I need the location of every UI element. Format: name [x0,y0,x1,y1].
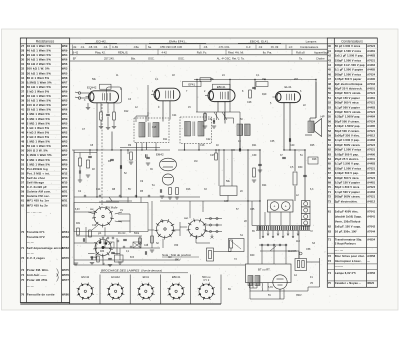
svg-text:W06: W06 [62,108,68,112]
svg-text:Condensateurs: Condensateurs [300,45,319,49]
note text: position [162,253,191,262]
svg-text:60: 60 [21,194,24,198]
svg-text:39: 39 [21,99,24,103]
coil stubs under tube1/tube2 [136,112,234,124]
svg-text:50pF 1.500 V mica: 50pF 1.500 V mica [335,185,360,189]
svg-text:W05: W05 [62,121,68,125]
svg-text:51: 51 [328,96,332,100]
svg-text:20 kΩ 1 Watt 5%: 20 kΩ 1 Watt 5% [27,53,51,57]
svg-text:C55 C90 C45 C36: C55 C90 C45 C36 [160,45,182,49]
svg-text:W04: W04 [62,158,68,162]
svg-text:57: 57 [21,181,24,185]
svg-text:W075: W075 [62,268,70,272]
svg-text:66: 66 [328,166,332,170]
svg-text:— —: — — [27,285,34,289]
svg-text:A7024: A7024 [367,73,375,76]
svg-text:..ECH42..: ..ECH42.. [94,40,107,44]
svg-text:Self déparasitage enroul.: Self déparasitage enroul. [27,246,64,250]
svg-text:W21: W21 [62,190,68,194]
svg-text:Pot.Vol: Pot.Vol [118,232,126,235]
svg-text:68: 68 [328,176,332,180]
svg-text:1M: 1M [262,78,265,81]
svg-text:AL. 4² OSC. Ret.°2. Ta.: AL. 4² OSC. Ret.°2. Ta. [216,57,245,61]
svg-text:60: 60 [328,138,332,142]
trimmers right of MF2 [214,112,227,120]
resistor R on 295 rail [293,172,297,185]
svg-text:BK I: BK I [175,258,181,262]
svg-text:C28: C28 [247,101,252,104]
junction circles cluster [102,237,141,248]
svg-text:6a.: 6a. [148,45,152,49]
svg-text:A4541: A4541 [367,216,375,219]
svg-text:.C71 C61.: .C71 C61. [218,45,230,49]
svg-text:257.245.: 257.245. [104,57,115,61]
svg-text:4 kΩ 2 Watt 5%: 4 kΩ 2 Watt 5% [27,130,50,134]
svg-text:58: 58 [328,129,332,133]
svg-text:110: 110 [296,240,300,243]
svg-text:A4490: A4490 [367,78,375,81]
svg-text:C12: C12 [92,225,97,227]
svg-text:W07: W07 [62,103,68,107]
svg-text:Lampe 6,3V 4°5: Lampe 6,3V 4°5 [335,271,356,275]
svg-text:R33: R33 [100,251,105,253]
svg-text:0,02μF 500 V pap.: 0,02μF 500 V pap. [335,171,359,175]
svg-text:6,3V: 6,3V [75,209,80,211]
svg-text:150pF 500 V céram.: 150pF 500 V céram. [335,110,361,114]
svg-text:74: 74 [328,271,332,275]
svg-text:W12: W12 [62,171,68,175]
svg-text:A7024: A7024 [367,144,375,147]
svg-text:W14: W14 [62,176,68,180]
svg-text:R19: R19 [262,93,267,96]
svg-text:71: 71 [328,238,332,242]
IF transformer MF2 (dashed) [180,117,212,144]
svg-text:C27: C27 [210,154,215,157]
svg-text:1M: 1M [194,160,197,163]
dark blobs near socket V2 [99,241,108,248]
output transformer + speaker HP [308,121,314,133]
svg-text:EM42: EM42 [156,153,164,157]
svg-text:Résistances: Résistances [36,39,55,43]
svg-text:51: 51 [21,153,24,157]
rail series resistor [200,78,211,81]
svg-text:EL41: EL41 [284,85,291,89]
svg-text:C31: C31 [208,118,213,121]
svg-text:50: 50 [328,91,332,95]
svg-text:74: 74 [21,273,24,277]
svg-text:A7041: A7041 [367,211,375,214]
svg-text:W09: W09 [62,44,68,48]
svg-text:0,1μF 1.500 V pap.: 0,1μF 1.500 V pap. [335,138,360,142]
svg-text:100pF 1.500 V mica: 100pF 1.500 V mica [335,49,361,53]
svg-text:61: 61 [328,210,332,214]
svg-text:62: 62 [21,203,24,207]
svg-text:41: 41 [328,49,332,53]
svg-text:Cavalier + Noyau ...: Cavalier + Noyau ... [335,281,361,285]
svg-text:W03: W03 [62,67,68,71]
svg-text:Anti-fad. ——: Anti-fad. —— [27,273,47,277]
svg-text:W01: W01 [62,112,68,116]
svg-text:W32: W32 [62,203,68,207]
svg-text:Lampes: Lampes [306,40,317,44]
svg-text:.C8. C6.: .C8. C6. [88,45,98,49]
svg-text:100pF 3 kV .500 V pap: 100pF 3 kV .500 V pap [335,63,365,67]
coupling parts mid [252,86,256,88]
svg-text:55: 55 [328,115,332,119]
svg-text:1 kΩ 1 Watt 5%: 1 kΩ 1 Watt 5% [27,126,50,130]
svg-text:0,5MΩ 1 Watt 5%: 0,5MΩ 1 Watt 5% [27,80,52,84]
svg-text:49: 49 [328,87,332,91]
svg-text:72: 72 [328,195,332,199]
heater wiring under mains transformer [250,283,269,291]
svg-text:m±: m± [288,46,293,49]
svg-text:W15: W15 [62,181,68,185]
svg-text:A7021: A7021 [367,196,375,199]
svg-text:2 MΩ 1 Watt 5%: 2 MΩ 1 Watt 5% [27,158,50,162]
svg-text:57: 57 [328,124,332,128]
svg-text:6V3: 6V3 [130,257,135,259]
svg-text:46: 46 [328,72,332,76]
svg-text:73: 73 [328,199,332,203]
dashed gang line [101,104,103,207]
svg-text:63: 63 [328,230,332,234]
svg-text:150pF 1.500 V mica: 150pF 1.500 V mica [335,166,361,170]
svg-text:56: 56 [21,176,24,180]
left side component chain [79,158,82,166]
svg-text:61: 61 [21,199,24,203]
svg-text:C40: C40 [290,144,295,147]
svg-text:50μF 25 V électroch.: 50μF 25 V électroch. [335,87,363,91]
svg-text:72: 72 [328,254,332,258]
svg-text:267: 267 [294,78,299,81]
title / header band [20,38,377,304]
svg-text:R30: R30 [298,166,303,169]
svg-text:30 kΩ 1 Watt 5%: 30 kΩ 1 Watt 5% [27,71,51,75]
svg-text:Galette AM com.: Galette AM com. [27,190,51,194]
comb feeder wires [252,201,306,227]
svg-text:A4490: A4490 [367,153,375,156]
svg-text:— —: — — [27,252,34,256]
svg-text:47: 47 [21,135,24,139]
svg-text:masse: masse [90,257,97,259]
svg-text:W063: W063 [62,246,70,250]
svg-text:50 kΩ 1 Watt 5%: 50 kΩ 1 Watt 5% [27,144,51,148]
svg-text:55: 55 [21,171,24,175]
svg-text:EF41: EF41 [143,275,150,279]
svg-text:62: 62 [328,148,332,152]
svg-text:10 kΩ 1 Watt 5%: 10 kΩ 1 Watt 5% [27,99,51,103]
svg-text:osc.: osc. [90,209,95,211]
svg-text:MF2 455 kc 2e: MF2 455 kc 2e [27,203,48,207]
svg-text:42: 42 [21,112,24,116]
svg-text:fla. Pra.: fla. Pra. [262,51,272,55]
svg-text:A4558: A4558 [367,255,375,258]
svg-text:45: 45 [328,68,332,72]
svg-text:A7024: A7024 [367,111,375,114]
svg-text:+: + [273,204,275,208]
svg-text:W09: W09 [62,49,68,53]
svg-text:A7021: A7021 [367,149,375,152]
svg-text:100pF 500V céram.: 100pF 500V céram. [335,143,361,147]
svg-text:— —: — — [27,241,34,245]
svg-text:0,1μF 500 V papier: 0,1μF 500 V papier [335,190,360,194]
svg-text:2x8 μF. 150 V supp.: 2x8 μF. 150 V supp. [335,225,361,229]
svg-text:A4485: A4485 [367,172,375,175]
svg-text:54: 54 [328,110,332,114]
svg-text:A4554: A4554 [367,239,375,242]
svg-text:200 kΩ 1 W. 5%: 200 kΩ 1 W. 5% [27,67,50,71]
svg-text:A4481: A4481 [367,50,375,53]
svg-text:40: 40 [328,44,332,48]
svg-text:CY 2: CY 2 [203,278,209,282]
svg-text:EBC41: EBC41 [217,85,226,89]
svg-text:OSC.: OSC. [178,57,185,61]
svg-text:R25: R25 [310,144,315,147]
svg-text:R16: R16 [186,188,191,191]
svg-text:2μF électrochim.: 2μF électrochim. [335,199,358,203]
svg-text:69: 69 [328,181,332,185]
svg-text:C14: C14 [96,188,101,191]
svg-text:OSC.: OSC. [148,57,155,61]
svg-text:C35: C35 [270,140,275,143]
svg-text:0,5μF 150 V papier: 0,5μF 150 V papier [335,96,360,100]
svg-text:50: 50 [21,149,24,153]
svg-text:0,1μF 1.500 V pap.: 0,1μF 1.500 V pap. [335,162,360,166]
tube V1 ECH42 [86,91,119,103]
svg-text:W06: W06 [62,58,68,62]
svg-text:52: 52 [328,101,332,105]
svg-text:5V: 5V [268,294,271,297]
voltage selector contacts [259,231,299,251]
chassis wiring cluster left [74,212,180,260]
svg-text:Tonalité N°2: Tonalité N°2 [27,235,45,239]
svg-text:0,1μF 500 V papier: 0,1μF 500 V papier [335,105,360,109]
svg-text:43: 43 [21,117,24,121]
svg-text:W04: W04 [62,126,68,130]
small box component near 224,190 [220,186,237,196]
svg-text:73: 73 [328,259,332,263]
svg-text:A4501: A4501 [367,158,375,161]
svg-text:40 kΩ 1 Watt 5%: 40 kΩ 1 Watt 5% [27,44,51,48]
svg-text:45: 45 [21,126,24,130]
svg-text:Bla.: Bla. [131,57,136,61]
svg-text:C39: C39 [252,154,257,157]
svg-text:59: 59 [21,190,24,194]
svg-text:50 kΩ 2 Watt 5%: 50 kΩ 2 Watt 5% [27,62,51,66]
svg-text:44: 44 [328,63,332,67]
svg-text:.C1.: .C1. [80,45,85,49]
svg-text:gril.: gril. [98,232,102,235]
svg-text:Galette FM osc.: Galette FM osc. [27,194,50,198]
svg-text:42: 42 [328,54,332,58]
svg-text:50pF 500 V céram.: 50pF 500 V céram. [335,129,360,133]
svg-text:W07: W07 [62,80,68,84]
svg-text:A4501: A4501 [367,88,375,91]
svg-text:53: 53 [328,105,332,109]
svg-text:W09: W09 [62,162,68,166]
svg-text:C24: C24 [172,114,177,117]
svg-text:75: 75 [328,281,332,285]
svg-text:Condensateurs: Condensateurs [341,39,363,43]
svg-text:R11: R11 [163,138,168,141]
svg-text:C-3: C-3 [246,45,251,49]
svg-text:A7024: A7024 [367,120,375,123]
selector to transformer wires [250,246,320,299]
svg-text:C58: C58 [306,248,311,251]
svg-text:70: 70 [21,230,24,234]
svg-text:A7024: A7024 [367,92,375,95]
svg-text:W09: W09 [62,90,68,94]
band switch contacts [205,217,222,232]
svg-text:46: 46 [21,130,24,134]
svg-text:1A: 1A [294,274,297,277]
IF transformer MF1 (dashed) [134,118,169,143]
svg-text:W05: W05 [62,149,68,153]
svg-text:W09: W09 [62,135,68,139]
svg-text:41: 41 [21,108,24,112]
boxed vertical component below note [207,248,214,261]
svg-text:350V: 350V [296,294,302,297]
svg-text:+: + [285,204,287,208]
mid horizontal rails [72,112,305,265]
svg-text:25 kΩ 1 Watt 5%: 25 kΩ 1 Watt 5% [27,108,51,112]
svg-text:C55: C55 [250,208,255,211]
svg-text:Self filtrage: Self filtrage [27,181,45,185]
svg-text:A4483: A4483 [367,55,375,58]
svg-text:C.V. 2x490 pF: C.V. 2x490 pF [27,185,47,189]
svg-text:W061: W061 [62,230,70,234]
svg-text:31: 31 [21,62,24,66]
svg-text:2x0,1 μF 1.500 V pap.: 2x0,1 μF 1.500 V pap. [335,54,364,58]
svg-text:W31: W31 [62,199,68,203]
svg-text:C49: C49 [224,200,229,203]
resistor cluster [77,228,80,235]
svg-text:2 kΩ 1 Watt 5%: 2 kΩ 1 Watt 5% [27,90,50,94]
svg-text:60 kΩ 1 Watt 5%: 60 kΩ 1 Watt 5% [27,85,51,89]
bottom frame [20,303,221,305]
svg-text:A7044: A7044 [367,231,375,234]
svg-text:37: 37 [21,90,24,94]
svg-text:..0k: ..0k [72,45,77,49]
svg-text:71: 71 [21,246,24,250]
svg-text:Ro9.o8: Ro9.o8 [296,51,305,55]
svg-text:Bloc fiches pour char.: Bloc fiches pour char. [335,254,365,258]
svg-text:A4484: A4484 [367,116,375,119]
svg-text:32: 32 [21,67,24,71]
svg-text:0,5μF 150 V papier: 0,5μF 150 V papier [335,181,360,185]
svg-text:.C2: .C2 [258,45,263,49]
svg-text:W08: W08 [62,76,68,80]
svg-text:AM: AM [168,256,172,259]
svg-text:20pF 500 V céram.: 20pF 500 V céram. [335,119,360,123]
svg-text:R28: R28 [312,158,317,161]
svg-text:52: 52 [21,158,24,162]
svg-text:1 MΩ 1 Watt 5%: 1 MΩ 1 Watt 5% [27,140,50,144]
svg-text:A4483: A4483 [367,106,375,109]
svg-text:38: 38 [21,94,24,98]
svg-text:300 Ω 2 W. 5%: 300 Ω 2 W. 5% [27,149,48,153]
svg-text:EF: EF [72,57,77,61]
svg-text:40 kΩ 1 Watt 5%: 40 kΩ 1 Watt 5% [27,49,51,53]
svg-text:A7034: A7034 [367,83,375,86]
antenna input terminals [75,92,89,99]
svg-text:0,1MΩ 1 Watt 5%: 0,1MΩ 1 Watt 5% [27,153,52,157]
svg-text:62: 62 [328,225,332,229]
svg-text:25μF 25 V électro.: 25μF 25 V électro. [335,157,359,161]
svg-text:75: 75 [21,278,24,282]
svg-text:C22: C22 [206,138,211,141]
svg-text:Tonalité N°1: Tonalité N°1 [27,230,45,234]
rectifier tube [250,275,308,299]
svg-text:W11: W11 [62,167,68,171]
big socket circles (chassis view) [92,206,114,227]
parts under tube V1 [100,112,103,120]
svg-text:44: 44 [21,121,24,125]
svg-text:29: 29 [21,53,24,57]
svg-text:A7024: A7024 [367,45,375,48]
svg-text:200pF 500V céram.: 200pF 500V céram. [335,195,361,199]
svg-text:W05: W05 [62,71,68,75]
svg-text:36: 36 [21,85,24,89]
svg-text:W080: W080 [62,293,70,297]
svg-text:72: 72 [21,256,24,260]
svg-text:ECH42: ECH42 [87,86,97,90]
svg-text:500pF 500 V mica: 500pF 500 V mica [335,101,359,105]
svg-text:Chaîne: Chaîne [316,57,325,61]
svg-text:— · — · —: — · — · — [27,210,42,214]
svg-text:A4485: A4485 [367,125,375,128]
svg-text:EBC41: EBC41 [172,275,181,279]
svg-text:6-42: 6-42 [72,51,79,55]
leads from socket circles [88,212,210,265]
svg-text:A7021: A7021 [367,167,375,170]
svg-text:2x8 μF 450V élec.: 2x8 μF 450V élec. [335,210,359,214]
AVC line details [214,112,240,150]
mains transformer box BT ou RT [246,264,292,283]
svg-text:63: 63 [328,152,332,156]
tube V2 EF41 [151,88,180,101]
svg-text:MF1 455 kc 1er: MF1 455 kc 1er [27,199,50,203]
svg-text:R24: R24 [262,184,267,187]
svg-text:.C6a: .C6a [133,45,139,49]
svg-text:500pF 1.500 V mica: 500pF 1.500 V mica [335,148,361,152]
dual electrolytic capacitor [268,200,294,212]
svg-text:W22: W22 [62,194,68,198]
svg-text:58: 58 [21,185,24,189]
scan grain [20,39,377,303]
svg-text:C50: C50 [174,245,179,247]
svg-text:A7024: A7024 [367,186,375,189]
tiny labels lower-left [75,209,189,259]
svg-text:500k: 500k [134,233,140,235]
svg-text:Potar HO 25%: Potar HO 25% [27,278,48,282]
svg-text:BROCHAGE DES LAMPES (Vue de: BROCHAGE DES LAMPES (Vue de dessous) [101,269,162,273]
svg-text:49: 49 [21,144,24,148]
svg-text:W07: W07 [62,153,68,157]
svg-text:100pF 500 V mica: 100pF 500 V mica [335,176,359,180]
svg-text:W06: W06 [62,144,68,148]
svg-text:W02: W02 [62,85,68,89]
svg-text:Transformateur 50p.: Transformateur 50p. [335,238,362,242]
svg-text:C48: C48 [144,245,149,247]
svg-text:100 Ω 2 Watt 5%: 100 Ω 2 Watt 5% [27,103,51,107]
chassis outline box [74,203,148,232]
svg-text:0,05μF 500 V papier: 0,05μF 500 V papier [335,77,362,81]
svg-text:R21: R21 [252,144,257,147]
svg-text:EM 42: EM 42 [81,275,89,279]
svg-text:0,1 μF 1.500 V papier: 0,1 μF 1.500 V papier [335,68,363,72]
volume potentiometer [99,197,119,202]
